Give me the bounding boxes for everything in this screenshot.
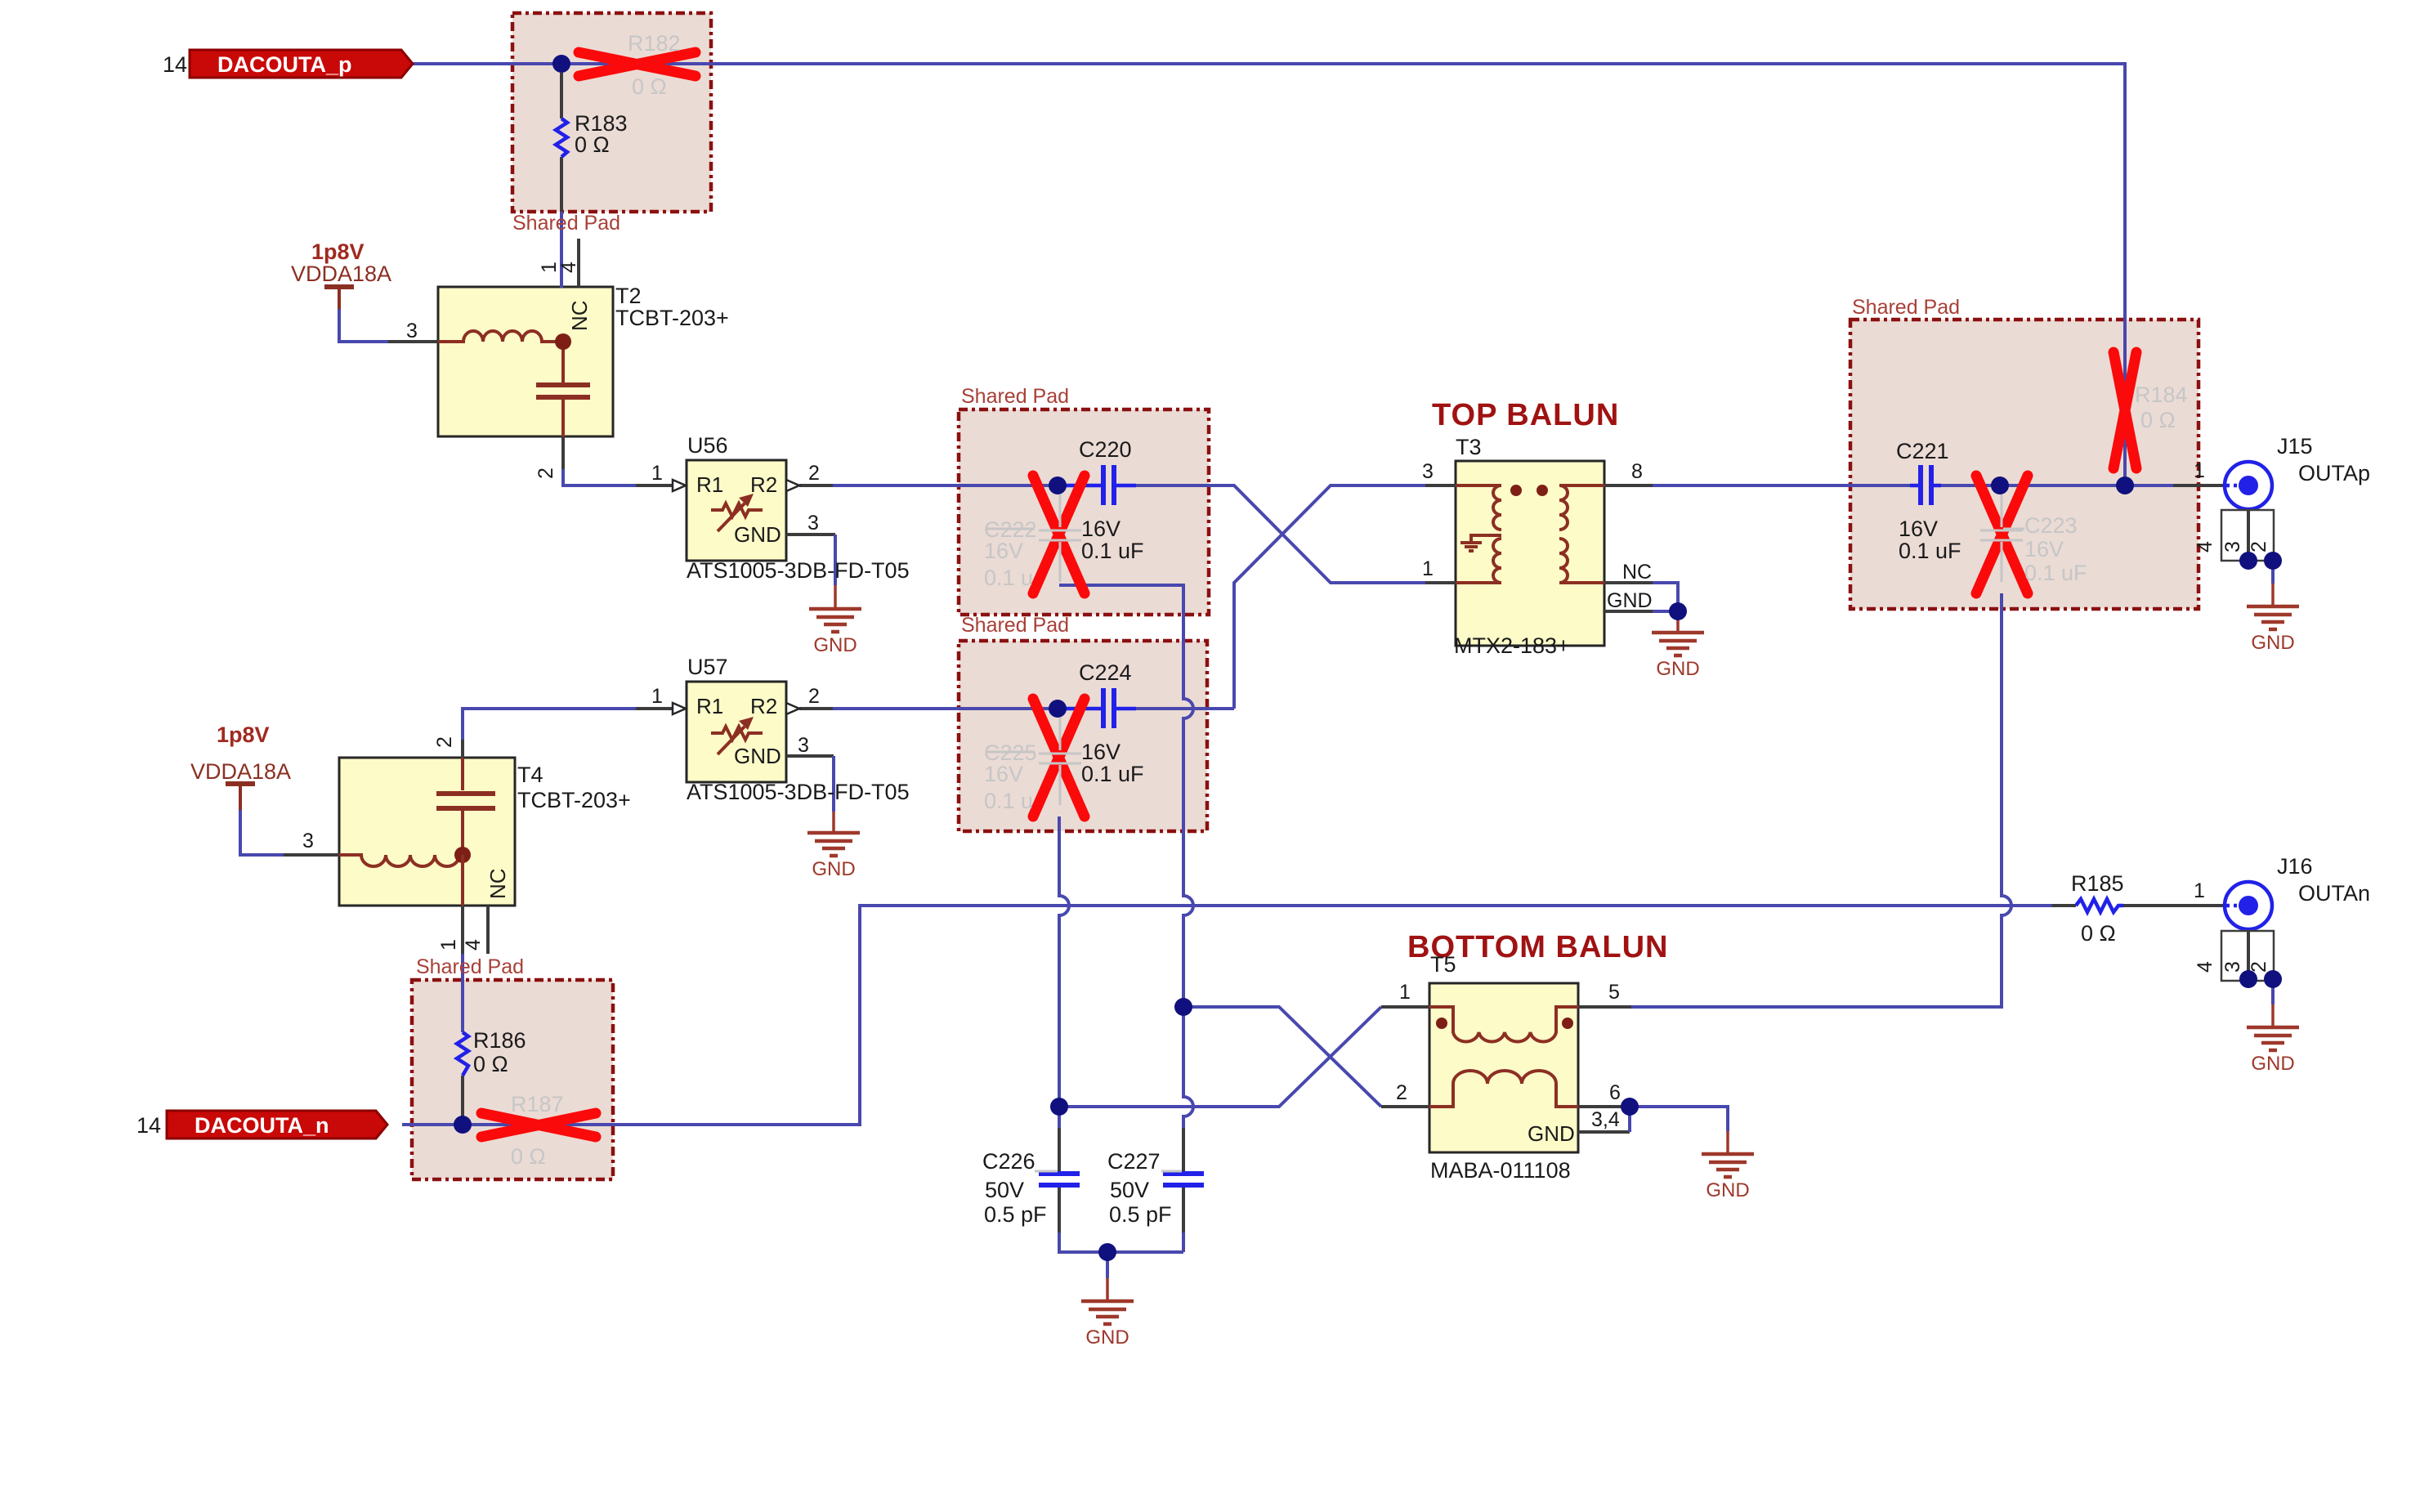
node T3 GND junction [1669, 602, 1687, 620]
svg-text:0.5 pF: 0.5 pF [1109, 1202, 1172, 1227]
svg-text:14: 14 [163, 52, 187, 77]
svg-text:0 Ω: 0 Ω [632, 74, 667, 99]
wire T2 pin2 to U56 pin1 [561, 436, 565, 469]
svg-text:NC: NC [485, 868, 510, 899]
resistor R184 crossed out [2114, 352, 2136, 468]
svg-text:R2: R2 [750, 694, 777, 718]
svg-text:C226: C226 [982, 1149, 1036, 1174]
wire J15 shield pins to GND [2247, 509, 2250, 561]
svg-text:2: 2 [433, 736, 456, 748]
shared pad box around C221/C223/R184 [1850, 320, 2199, 609]
svg-text:J16: J16 [2277, 854, 2313, 879]
shared pad box around R186/R187 [412, 980, 613, 1179]
svg-text:GND: GND [1085, 1326, 1129, 1349]
svg-text:3: 3 [1422, 460, 1434, 483]
svg-text:0 Ω: 0 Ω [2081, 921, 2116, 946]
svg-text:0 Ω: 0 Ω [473, 1052, 508, 1076]
svg-text:4: 4 [557, 262, 580, 273]
ground under T5 [1726, 1131, 1729, 1154]
capacitor C226 label underline [1035, 1170, 1058, 1173]
wire T2 pin4 stub [577, 239, 580, 287]
resistor R185 0-ohm zigzag [2076, 899, 2123, 912]
capacitor C223 crossed out [1976, 476, 2028, 593]
svg-text:16V: 16V [1081, 517, 1121, 541]
svg-text:1: 1 [2194, 879, 2205, 902]
svg-text:8: 8 [1631, 460, 1643, 483]
svg-text:C221: C221 [1896, 439, 1949, 463]
node C223 junction [1991, 476, 2009, 494]
capacitor C226 [1039, 1171, 1080, 1176]
shared pad box around C220/C222 [959, 409, 1209, 615]
node T5 GND junction [1621, 1098, 1639, 1116]
node C226 junction [1050, 1098, 1068, 1116]
svg-text:Shared Pad: Shared Pad [1852, 296, 1960, 319]
transformer T4 body [339, 758, 515, 906]
svg-text:TCBT-203+: TCBT-203+ [517, 788, 631, 812]
svg-text:2: 2 [535, 467, 557, 479]
wire U56 pin3 to GND [786, 533, 835, 536]
svg-text:R2: R2 [750, 472, 777, 497]
node DACOUTA_p junction [552, 55, 570, 73]
node C220 junction [1049, 476, 1067, 494]
svg-text:J15: J15 [2277, 434, 2313, 459]
pin arrow U57 pin1 [673, 703, 686, 714]
connector J16 shield pin box [2221, 931, 2274, 981]
node T4 internal junction [454, 847, 471, 863]
power port VDDA18A top [338, 287, 341, 309]
capacitor C223 greyed symbol [1980, 494, 2024, 582]
resistor R182 crossed out [579, 52, 696, 76]
variable attenuator symbol U57 [711, 727, 763, 740]
svg-text:4: 4 [462, 939, 485, 951]
inductor inside T2 [438, 331, 563, 342]
wire R183 branch upper black stub [560, 73, 563, 119]
svg-text:5: 5 [1608, 981, 1620, 1004]
shared pad box around C224/C225 [959, 641, 1207, 831]
svg-text:GND: GND [1706, 1179, 1749, 1201]
wire T3 NC pin [1604, 581, 1653, 584]
capacitor C220 [1058, 484, 1101, 488]
svg-text:0.1 u: 0.1 u [984, 566, 1033, 590]
balun T5 body [1429, 983, 1578, 1152]
connector J15 circle [2225, 462, 2272, 509]
svg-text:R186: R186 [473, 1028, 526, 1053]
svg-text:T3: T3 [1456, 435, 1482, 459]
wire C223 down to T5 pin5 (with hop over OUTAn rail) [1631, 593, 2011, 1007]
ground under J15 [2271, 584, 2275, 606]
svg-text:GND: GND [734, 522, 781, 547]
net flag DACOUTA_p [190, 50, 413, 78]
svg-text:C224: C224 [1079, 660, 1132, 685]
svg-text:T4: T4 [517, 763, 543, 787]
node DACOUTA_n junction [454, 1116, 472, 1134]
wire U56 pin2 to C220 [799, 484, 833, 487]
svg-text:0.5 pF: 0.5 pF [984, 1202, 1047, 1227]
svg-text:T5: T5 [1430, 952, 1456, 977]
svg-text:GND: GND [813, 634, 857, 656]
svg-text:GND: GND [812, 858, 855, 880]
wire C225 net down to C226 (hop over OUTAn rail) [1059, 816, 1069, 1107]
wire C221 to J15 [1941, 484, 2173, 487]
svg-text:R184: R184 [2135, 382, 2188, 407]
svg-text:3: 3 [302, 830, 314, 852]
svg-text:0.1 uF: 0.1 uF [2024, 561, 2087, 585]
svg-text:50V: 50V [985, 1178, 1024, 1202]
shared pad box around R182/R183 [512, 13, 711, 212]
pin arrow U56 pin1 [673, 480, 686, 491]
svg-text:U56: U56 [687, 433, 728, 458]
svg-text:50V: 50V [1110, 1178, 1149, 1202]
net flag DACOUTA_n [167, 1111, 387, 1138]
svg-text:MTX2-183+: MTX2-183+ [1454, 633, 1570, 658]
wire T5 pin5 stub [1578, 1005, 1631, 1009]
wire DACOUTA_n to OUTAn rail and R185 [402, 906, 2052, 1125]
svg-text:ATS1005-3DB-FD-T05: ATS1005-3DB-FD-T05 [687, 780, 910, 804]
wire T4 pin2 to U57 pin1 [461, 740, 464, 758]
svg-text:3: 3 [798, 734, 809, 757]
ground under U57 [832, 812, 835, 833]
ground tap inside T3 [1471, 535, 1501, 541]
svg-text:3: 3 [2221, 961, 2244, 973]
node cap bottom junction [1098, 1243, 1116, 1261]
capacitor C225 greyed symbol [986, 718, 1081, 805]
svg-text:VDDA18A: VDDA18A [190, 759, 291, 784]
connector J16 circle [2225, 882, 2272, 929]
capacitor C227 label underline [1161, 1170, 1182, 1173]
svg-text:OUTAn: OUTAn [2298, 881, 2370, 906]
svg-text:16V: 16V [1081, 740, 1121, 764]
svg-text:0 Ω: 0 Ω [511, 1144, 546, 1169]
svg-text:0.1 uF: 0.1 uF [1081, 539, 1144, 563]
capacitor C224 [1058, 707, 1101, 711]
svg-text:0.1 uF: 0.1 uF [1899, 539, 1961, 563]
attenuator U57 body [687, 682, 786, 782]
node R184 junction [2116, 476, 2134, 494]
wire T4 pin1 to R186 [461, 906, 464, 954]
svg-text:TOP BALUN: TOP BALUN [1432, 398, 1619, 432]
resistor R183 0-ohm zigzag [556, 119, 567, 157]
node C224 junction [1049, 700, 1067, 718]
svg-text:DACOUTA_n: DACOUTA_n [195, 1113, 329, 1138]
capacitor C221 [1910, 484, 1918, 488]
svg-text:R182: R182 [628, 31, 681, 56]
svg-text:GND: GND [2251, 632, 2294, 654]
svg-text:R187: R187 [511, 1092, 564, 1116]
svg-text:3,4: 3,4 [1591, 1108, 1620, 1131]
svg-text:1: 1 [1422, 557, 1434, 580]
wire C220 to T3 pin1 (crossover) [1136, 485, 1425, 583]
pin arrow U56 pin2 [786, 480, 799, 491]
capacitor C222 greyed symbol [986, 494, 1081, 582]
node J15 shield junctions [2239, 552, 2257, 570]
wire VDDA18A to T2 pin3 [339, 309, 388, 342]
svg-text:1p8V: 1p8V [311, 239, 365, 264]
svg-text:1: 1 [1399, 981, 1411, 1004]
svg-text:U57: U57 [687, 655, 728, 679]
svg-text:C220: C220 [1079, 437, 1132, 462]
svg-text:OUTAp: OUTAp [2298, 461, 2370, 485]
svg-text:Shared Pad: Shared Pad [512, 212, 620, 235]
variable attenuator symbol U56 [711, 503, 763, 517]
wire T4 pin4 stub [486, 906, 490, 954]
svg-text:DACOUTA_p: DACOUTA_p [217, 52, 352, 77]
svg-text:GND: GND [1607, 589, 1653, 612]
svg-text:0 Ω: 0 Ω [575, 132, 610, 157]
svg-text:TCBT-203+: TCBT-203+ [615, 306, 729, 330]
svg-text:2: 2 [2248, 541, 2270, 552]
svg-text:0.1 u: 0.1 u [984, 789, 1033, 813]
node T2 internal junction [555, 333, 571, 350]
pin arrow U57 pin2 [786, 703, 799, 714]
wire R186 to DACOUTA_n junction [461, 1076, 464, 1125]
winding T5 primary [1429, 1007, 1578, 1042]
svg-text:NC: NC [1622, 561, 1652, 584]
wire T3 GND pin [1604, 610, 1653, 613]
svg-text:4: 4 [2194, 541, 2216, 552]
wire C227 junction to T5 pin2 (crossover) [1183, 1007, 1381, 1107]
svg-text:Shared Pad: Shared Pad [961, 385, 1069, 408]
svg-text:R185: R185 [2071, 871, 2124, 896]
wire C226 leads [1058, 1128, 1061, 1172]
svg-text:GND: GND [1656, 658, 1699, 680]
svg-text:16V: 16V [984, 539, 1023, 563]
svg-text:R1: R1 [696, 472, 723, 497]
wire C222 net down to C227 (hops over C224 row, OUTAn rail, T5 row) [1059, 585, 1193, 1007]
wire DACOUTA_p top rail to R184 column [413, 64, 2125, 485]
svg-text:2: 2 [808, 462, 820, 485]
svg-text:GND: GND [734, 744, 781, 768]
wire VDDA18A to T4 pin3 [240, 810, 284, 855]
svg-text:MABA-011108: MABA-011108 [1430, 1158, 1571, 1183]
capacitor inside T2 [561, 342, 565, 382]
svg-text:Shared Pad: Shared Pad [961, 614, 1069, 637]
svg-text:4: 4 [2194, 961, 2216, 973]
wire T5 pin6 to GND [1578, 1105, 1630, 1108]
wire J16 shield pins to GND [2247, 929, 2250, 979]
node J16 shield junctions [2239, 970, 2257, 988]
svg-text:2: 2 [808, 685, 820, 708]
wire C226 junction to T5 pin1 (crossover) [1059, 1007, 1381, 1107]
svg-text:1p8V: 1p8V [217, 722, 270, 747]
wire C224 up to T3 pin3 (crossover) [1234, 485, 1425, 709]
wire R183 to T2 pin1 [560, 157, 563, 212]
capacitor C227 [1163, 1171, 1204, 1176]
node T3 polarity dots [1510, 485, 1522, 496]
svg-text:1: 1 [2194, 459, 2205, 482]
capacitor C225 crossed out [1033, 699, 1085, 816]
svg-text:R1: R1 [696, 694, 723, 718]
ground under U56 [834, 585, 837, 609]
svg-text:Shared Pad: Shared Pad [416, 955, 524, 978]
node C227 junction [1174, 998, 1192, 1016]
svg-text:C223: C223 [2024, 513, 2078, 538]
winding T3 secondary [1559, 485, 1604, 530]
svg-text:3: 3 [406, 320, 418, 342]
svg-text:GND: GND [2251, 1053, 2294, 1075]
svg-text:0.1 uF: 0.1 uF [1081, 762, 1144, 786]
winding T5 secondary [1429, 1071, 1578, 1107]
resistor R187 crossed out [481, 1113, 596, 1137]
resistor R186 0-ohm zigzag [457, 1032, 468, 1076]
attenuator U56 body [687, 460, 786, 561]
svg-text:3: 3 [807, 512, 819, 535]
svg-text:2: 2 [1396, 1081, 1407, 1104]
svg-text:C227: C227 [1107, 1149, 1161, 1174]
wire C224 to crossover corner [1136, 707, 1234, 710]
svg-text:NC: NC [567, 300, 592, 331]
power port VDDA18A bottom [239, 784, 242, 810]
wire U57 pin3 to GND [786, 754, 834, 758]
svg-text:6: 6 [1609, 1081, 1621, 1104]
svg-text:1: 1 [437, 939, 460, 951]
svg-text:2: 2 [2248, 961, 2270, 973]
svg-text:T2: T2 [615, 284, 642, 308]
wire C227 leads [1182, 1128, 1185, 1172]
svg-text:16V: 16V [984, 762, 1023, 786]
svg-text:VDDA18A: VDDA18A [291, 262, 391, 286]
svg-text:0 Ω: 0 Ω [2140, 408, 2176, 432]
svg-text:3: 3 [2221, 541, 2244, 552]
svg-text:GND: GND [1528, 1121, 1575, 1146]
svg-text:1: 1 [651, 462, 663, 485]
svg-text:ATS1005-3DB-FD-T05: ATS1005-3DB-FD-T05 [687, 558, 910, 583]
capacitor C222 crossed out [1033, 476, 1085, 593]
svg-text:16V: 16V [2024, 537, 2064, 561]
wire cap bottom junction to GND [1106, 1252, 1109, 1278]
node T5 polarity dots [1436, 1018, 1447, 1029]
winding T3 primary [1456, 485, 1501, 530]
ground under T3 [1676, 611, 1680, 633]
ground under J16 [2271, 1004, 2275, 1027]
balun T3 body [1456, 461, 1604, 646]
svg-text:16V: 16V [1899, 517, 1938, 541]
svg-text:1: 1 [651, 685, 663, 708]
wire T3 pin8 to C221 [1604, 484, 1653, 487]
wire T5 pin3,4 to junction [1578, 1130, 1630, 1134]
capacitor inside T4 [461, 758, 464, 790]
ground under C226/C227 [1106, 1278, 1109, 1301]
connector J15 shield pin box [2221, 510, 2274, 561]
transformer T2 body [438, 287, 613, 436]
wire U57 pin2 to C224 [799, 707, 833, 710]
svg-text:14: 14 [136, 1113, 161, 1138]
inductor inside T4 [339, 855, 463, 866]
